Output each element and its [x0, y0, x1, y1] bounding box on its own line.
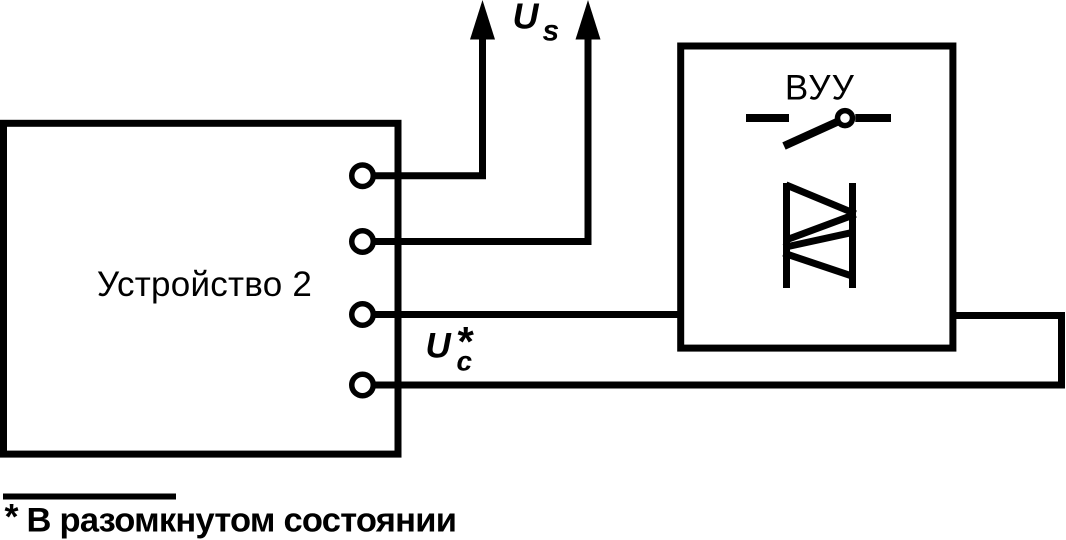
label Us — [513, 0, 560, 48]
device box U2 (Устройство 2) — [4, 123, 399, 454]
triac triangle upper side A — [786, 185, 856, 214]
triac left bar — [783, 183, 790, 288]
triac triangle upper side B — [786, 214, 856, 240]
switch S1 blade — [784, 122, 838, 147]
switch S1 left lead — [746, 114, 789, 122]
wire terminal2 to arrow Us2 — [371, 36, 588, 242]
svg-text:Устройство 2: Устройство 2 — [97, 265, 312, 304]
terminal 2 — [352, 231, 374, 253]
switch S1 right lead — [855, 114, 891, 122]
wire terminal1 to arrow Us1 — [371, 36, 483, 176]
triac right bar — [849, 183, 856, 288]
VUU box — [681, 46, 953, 348]
svg-text:В разомкнутом состоянии: В разомкнутом состоянии — [27, 502, 457, 540]
svg-text:*: * — [5, 496, 19, 537]
svg-text:c: c — [457, 346, 473, 377]
svg-text:U: U — [513, 0, 540, 37]
arrowhead Us1 — [470, 0, 495, 40]
svg-text:U: U — [426, 327, 452, 366]
svg-text:s: s — [543, 15, 560, 48]
terminal 1 — [352, 165, 374, 187]
svg-text:ВУУ: ВУУ — [785, 69, 855, 108]
triac triangle lower side C — [784, 232, 853, 247]
arrowhead Us2 — [576, 0, 601, 40]
footnote overline — [3, 494, 176, 500]
switch S1 pivot — [838, 111, 853, 126]
label Uc* — [426, 318, 475, 377]
wire VUU box to terminal4 — [371, 316, 1062, 386]
terminal 4 — [352, 374, 374, 396]
terminal 3 — [352, 304, 374, 326]
triac triangle lower side D — [784, 253, 853, 276]
wire terminal3 to VUU box — [371, 311, 682, 318]
